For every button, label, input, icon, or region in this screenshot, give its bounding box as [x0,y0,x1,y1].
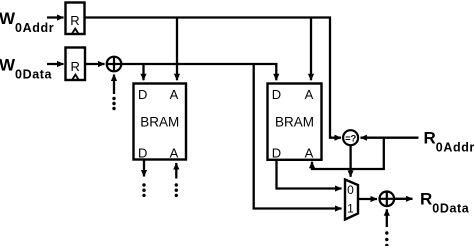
wire right BRAM D output to mux input 0 [277,160,342,189]
wire W0Addr input arrow [47,16,64,18]
svg-text:=?: =? [345,134,356,145]
comparator U1 =? [343,130,358,145]
wire W0Data input arrow [47,63,64,65]
wire branch to left BRAM A input [176,18,178,81]
wire left BRAM A input (from other stages) [175,163,177,179]
svg-text:D: D [138,145,147,160]
register R1 (W0Addr) [66,3,85,35]
wire XOR1 bottom input (from other stages) [113,75,115,95]
svg-text:A: A [170,87,179,102]
wire comparator output to mux select [349,145,351,177]
svg-text:BRAM: BRAM [275,114,314,129]
xor X1 [107,57,122,72]
wire XOR1 output write-data bus to right BRAM D [121,64,276,80]
svg-text:A: A [305,87,314,102]
dots below XOR1 [112,97,115,110]
svg-text:R: R [71,59,80,74]
wire left BRAM D output (down to other stages) [143,160,145,177]
wire reg2 to XOR1 [85,63,105,65]
wire R0Data output arrow [394,198,412,200]
svg-text:R: R [70,13,79,28]
wire W0Addr bus to comparator [85,18,342,138]
wire branch to left BRAM D input [142,64,144,80]
svg-text:D: D [138,87,147,102]
svg-text:BRAM: BRAM [140,114,179,129]
svg-text:1: 1 [347,201,354,215]
xor X2 [380,192,395,207]
svg-text:A: A [170,145,179,160]
wire R0Addr input to comparator [361,137,419,139]
wire R0Addr branch to right BRAM read address A [312,138,384,169]
register R2 (W0Data) [66,48,86,81]
svg-text:A: A [305,145,314,160]
BRAM left [134,84,187,161]
dots below XOR2 [385,231,388,246]
dots below left BRAM A [175,183,178,197]
wire branch to right BRAM A input [310,18,312,81]
mux M1 [345,180,358,220]
wire write-data branch to mux input 1 [254,64,342,209]
dots below left BRAM D [142,183,145,197]
svg-text:D: D [272,87,281,102]
svg-text:0: 0 [347,183,354,197]
wire XOR2 bottom input (from other stages) [386,209,388,227]
wire mux output to XOR2 [358,198,377,200]
svg-text:D: D [272,145,281,160]
BRAM right [268,84,322,161]
